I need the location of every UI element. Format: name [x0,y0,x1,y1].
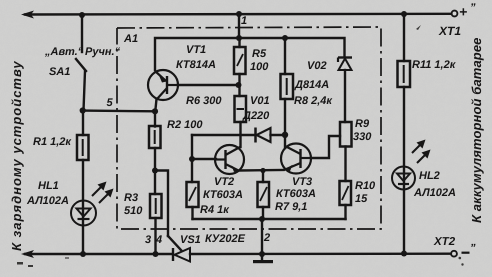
resistor R11 [398,61,411,87]
wire gate jog [155,171,168,237]
svg-text:КТ603А: КТ603А [276,188,316,200]
svg-text:SA1: SA1 [49,66,70,78]
svg-text:R9: R9 [355,118,370,130]
wire diode cathode to R8 column [271,134,286,136]
wire R11 to HL2 to bottom rail [403,87,405,254]
wire top rail [25,13,451,16]
svg-text:АЛ102А: АЛ102А [26,195,69,207]
junction node 5 / VT1 collector [152,108,158,114]
svg-text:R1 1,2к: R1 1,2к [33,136,72,148]
wire VT2 base horizontal [192,158,216,160]
svg-text:510: 510 [124,205,143,217]
resistor R7 [258,182,270,207]
XT2 minus dash [462,252,470,254]
svg-text:15: 15 [355,193,368,205]
arrow left bottom [21,250,34,258]
svg-text:КТ814А: КТ814А [176,59,216,71]
svg-text:HL2: HL2 [419,170,440,182]
svg-text:R2 100: R2 100 [167,119,203,131]
resistor R1 [77,135,89,160]
junction top rail / switch [79,12,85,18]
wire R3 to bottom rail [154,218,156,254]
svg-text:Д220: Д220 [242,110,270,122]
svg-text:R7 9,1: R7 9,1 [275,201,307,213]
svg-text:ХТ2: ХТ2 [433,236,456,248]
svg-text:2: 2 [263,232,270,244]
resistor R8 [281,74,294,99]
wire pin1 vertical [238,14,240,38]
junction diode / VT3 collector [282,132,288,138]
svg-text:100: 100 [250,61,269,73]
LED HL1 [71,182,114,226]
wire VT1 collector to node [155,99,156,111]
svg-text:ХТ1: ХТ1 [438,24,461,38]
resistor R2 [149,126,161,148]
resistor R9 [340,122,352,147]
terminal XT1 [452,11,458,17]
svg-text:330: 330 [353,131,372,143]
svg-text:Ручн.“: Ручн.“ [85,46,121,58]
wire R1 to HL1 to bottom rail [82,160,84,254]
thyristor VS1 [173,248,190,262]
resistor R5 [234,47,246,74]
wire VT2 base column vertical [191,135,193,182]
wire R11 column top [403,14,405,61]
svg-text:R5: R5 [252,48,267,60]
svg-text:R8 2,4к: R8 2,4к [294,95,333,107]
svg-text:КУ202Е: КУ202Е [205,233,246,245]
resistor R6 [235,96,247,122]
wire pin2 drop [261,219,263,254]
junction top rail / pin 1 [236,11,242,17]
wire R10 to emitter rail [344,205,346,219]
svg-text:V02: V02 [307,60,327,72]
wire R7 bottom [262,207,264,219]
svg-text:R3: R3 [124,192,138,204]
svg-text:VT3: VT3 [292,176,312,188]
ground [253,260,273,263]
svg-text:VT2: VT2 [214,176,234,188]
arrow left top [21,11,34,19]
svg-text:КТ603А: КТ603А [203,189,243,201]
junction VT2 base / R4 [189,156,195,162]
svg-text:R11 1,2к: R11 1,2к [412,59,457,71]
transistor VT1 [148,70,178,100]
junction bottom rail / HL2 [401,251,407,257]
wire gate diagonal to VS1 [168,236,181,250]
diode VD1 [256,128,271,143]
wire R8 to VT3 collector [284,99,286,148]
svg-text:VS1: VS1 [180,234,201,246]
wire R4 bottom [191,207,193,219]
resistor R4 [187,182,199,207]
wire node5 horizontal [83,109,155,112]
wire ground stub [261,254,263,260]
junction top rail / R11 [401,11,407,17]
svg-text:1: 1 [241,15,247,27]
svg-text:”: ” [470,2,476,14]
svg-text:VT1: VT1 [186,44,206,56]
wire inner top rail [155,38,345,70]
zener VD2 [338,58,352,71]
switch SA1 blade [76,59,86,71]
svg-text:4: 4 [155,234,162,246]
svg-text:+: + [459,4,467,20]
transistor VT3 [281,144,311,174]
transistor VT2 [215,145,244,174]
junction bottom rail / HL1 [80,251,86,257]
wire switch to R1 node [84,71,86,111]
resistor R3 [150,194,162,218]
junction inner rail / R8 [282,35,288,41]
svg-text:Д814А: Д814А [294,79,329,91]
left vertical text [9,60,24,251]
wire R5 to R6 [238,74,240,96]
junction inner rail / R5 [236,35,242,41]
junction emitters / R7 [260,168,265,173]
right vertical text [469,38,484,223]
svg-text:R4 1к: R4 1к [200,204,230,216]
resistor R10 [340,181,352,205]
svg-text:R6 300: R6 300 [186,95,222,107]
svg-text:V01: V01 [250,95,270,107]
junction bottom rail / pin 2 [259,251,265,257]
wire R6 to VT2 collector [239,122,241,147]
scan speckles [17,25,464,267]
wire emitters rail VT2 VT3 [240,169,284,172]
svg-text:К зарядному устройству: К зарядному устройству [9,60,24,251]
wire switch pole from top rail [81,15,83,52]
terminal XT2 [451,251,457,257]
svg-text:5: 5 [107,97,114,109]
wire diode row [192,134,255,136]
junction emitter rail / pin 2 [259,216,265,222]
wire VT1 base to R5R6 column [178,84,239,86]
junction bottom rail / R3 [153,251,159,257]
svg-text:HL1: HL1 [38,180,59,192]
LED HL2 [392,140,431,190]
svg-text:К аккумуляторной батарее: К аккумуляторной батарее [469,38,484,223]
A1 dashed block border [117,27,381,229]
junction node 5 left [80,107,86,113]
wire bottom rail right of VS1 [190,252,451,255]
svg-text:”: ” [470,243,476,255]
wire R9 to R10 [344,147,346,182]
svg-text:R10: R10 [355,180,376,192]
svg-text:3: 3 [145,234,151,246]
wire R7 top stub [262,171,264,183]
wire R5 top [238,38,240,47]
svg-text:„Авт.“: „Авт.“ [44,46,84,58]
wire zener to R9 [344,70,346,122]
wire R8 column top [284,38,286,74]
wire emitter bottom rail [193,218,346,220]
junction R2 / R3 / gate [152,168,158,174]
junction VT1 base / R5 R6 [236,82,242,88]
wire R1 column top [82,111,84,135]
wire VT3 base right jog [311,136,340,158]
svg-text:А1: А1 [123,33,138,45]
wire R2 to R3 [154,148,156,194]
wire bottom rail left of VS1 [25,253,172,255]
wire R2 column [154,111,156,127]
svg-text:АЛ102А: АЛ102А [413,187,456,199]
